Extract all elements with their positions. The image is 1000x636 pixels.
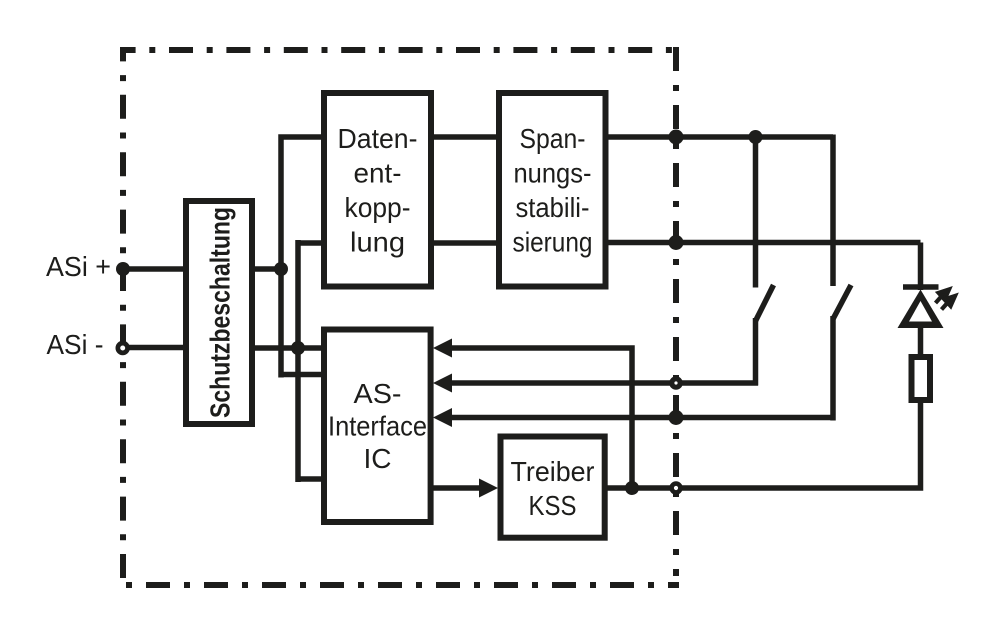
box Schutzbeschaltung <box>186 201 252 424</box>
wire ASi- into AS-Interface IC lower pin <box>298 476 325 482</box>
arrowhead into KSS <box>479 479 498 498</box>
wire Schutzbeschaltung output ASi- to IC <box>252 345 325 351</box>
terminal ring arrow2 wire at boundary <box>672 379 680 387</box>
wire ASi+ terminal to Schutzbeschaltung <box>123 266 186 272</box>
svg-text:kopp-: kopp- <box>345 192 411 223</box>
wire supply rail top from Spannungsstabilisierung <box>603 134 833 140</box>
svg-text:ent-: ent- <box>354 158 402 189</box>
junction dot top rail at boundary <box>669 130 684 145</box>
junction dot ASi- riser <box>291 341 305 355</box>
wire ASi+ into AS-Interface IC <box>281 372 325 378</box>
svg-text:Daten-: Daten- <box>338 123 418 154</box>
wire IC to Treiber KSS with arrow <box>428 485 482 491</box>
switch S2 <box>833 135 851 421</box>
svg-text:IC: IC <box>364 443 392 474</box>
svg-text:sierung: sierung <box>513 227 593 258</box>
junction dot KSS output feedback <box>625 481 639 495</box>
svg-text:Treiber: Treiber <box>511 456 595 487</box>
svg-text:AS-: AS- <box>354 378 402 409</box>
wire switch S2 to IC arrow 3 <box>450 415 836 421</box>
wire IC arrow 1 feedback from KSS output <box>450 348 632 488</box>
junction dot arrow3 wire at boundary <box>669 410 684 425</box>
svg-text:KSS: KSS <box>529 490 577 521</box>
terminal ring KSS output at boundary <box>672 484 681 493</box>
terminal dot ASi+ <box>116 262 130 276</box>
box AS-Interface IC <box>324 330 431 523</box>
arrowhead IC arrow 3 <box>433 408 452 427</box>
svg-text:stabili-: stabili- <box>516 192 590 223</box>
svg-text:ASi -: ASi - <box>47 329 104 360</box>
svg-text:nungs-: nungs- <box>514 158 592 189</box>
wire ASi- terminal to Schutzbeschaltung <box>123 345 186 351</box>
wire vertical ASi- riser to Daten-entkopplung lower input <box>298 240 325 246</box>
arrowhead IC arrow 1 <box>433 339 452 358</box>
wire switch S1 to IC arrow 2 <box>450 380 758 386</box>
box Daten-entkopplung <box>324 93 431 287</box>
svg-text:lung: lung <box>350 227 405 258</box>
svg-text:Interface: Interface <box>328 411 427 442</box>
wire Daten-entkopplung to Spannungsstabilisierung top <box>428 134 502 140</box>
arrowhead IC arrow 2 <box>433 374 452 393</box>
junction dot second rail at boundary <box>669 235 684 250</box>
box Spannungsstabilisierung <box>499 93 606 287</box>
wire Schutzbeschaltung output ASi+ <box>252 266 281 272</box>
wire vertical ASi+ riser to Daten-entkopplung <box>281 137 325 378</box>
LED D1 <box>898 287 944 357</box>
resistor R1 <box>912 357 931 400</box>
wire LED branch vertical <box>918 243 924 291</box>
LED light arrow 2 <box>942 296 956 310</box>
svg-text:ASi +: ASi + <box>46 251 111 282</box>
box Treiber KSS <box>501 437 605 538</box>
svg-text:Span-: Span- <box>520 123 586 154</box>
junction dot switch S1 top <box>749 130 763 144</box>
terminal ring ASi- <box>118 343 128 353</box>
junction dot ASi+ riser <box>274 262 288 276</box>
wire supply rail second from Spannungsstabilisierung <box>603 240 921 246</box>
svg-text:Schutzbeschaltung: Schutzbeschaltung <box>205 207 236 418</box>
wire KSS output to LED chain <box>602 400 921 488</box>
LED light arrow 1 <box>936 290 950 304</box>
wire Daten-entkopplung to Spannungsstabilisierung bottom <box>428 240 502 246</box>
module boundary dash-dot frame <box>123 47 679 585</box>
switch S1 <box>756 137 774 386</box>
